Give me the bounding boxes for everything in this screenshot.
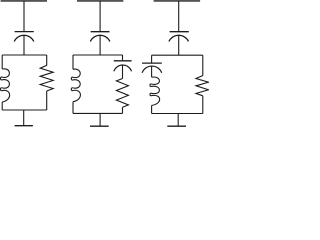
- wire box2 left upper: [72, 55, 74, 69]
- antenna A3 top plate: [154, 0, 201, 2]
- wire box2 left lower: [72, 102, 74, 114]
- wire box1 right lower: [46, 91, 48, 110]
- wire box1 left upper: [1, 55, 3, 69]
- wire box2 top edge: [73, 54, 123, 56]
- wire ground stem 1: [23, 110, 25, 125]
- wire box3 left lower: [151, 105, 153, 113]
- wire box1 right upper: [46, 55, 48, 66]
- capacitor C3 top plate: [114, 60, 132, 62]
- wire C5 to L3: [151, 66, 153, 77]
- wire box1 bottom edge: [2, 109, 47, 111]
- wire box1 left lower: [1, 102, 3, 110]
- resistor R3: [196, 76, 209, 96]
- inductor L2: [71, 69, 80, 102]
- wire feed 2: [99, 1, 101, 31]
- wire box2 bottom edge: [73, 112, 123, 114]
- capacitor C1 top plate: [15, 31, 34, 33]
- ground G2: [90, 125, 109, 127]
- wire C2 to box 2: [99, 35, 101, 55]
- wire box3 right lower: [202, 96, 204, 114]
- wire ground stem 2: [99, 113, 101, 126]
- capacitor C2 curved plate: [90, 35, 110, 41]
- ground G3: [167, 125, 186, 127]
- wire feed 1: [23, 1, 25, 31]
- capacitor C5 top plate: [142, 62, 162, 64]
- antenna A1 top plate: [1, 0, 47, 2]
- wire C4 to box 3: [178, 35, 180, 55]
- wire box3 right upper: [202, 55, 204, 75]
- wire box3 top edge: [152, 54, 203, 56]
- wire box1 top edge: [2, 54, 47, 56]
- capacitor C3 curved plate: [114, 65, 132, 71]
- wire ground stem 3: [177, 114, 179, 126]
- wire C1 to box 1: [23, 35, 25, 55]
- resistor R2: [116, 79, 128, 108]
- ground G1: [15, 125, 33, 127]
- antenna A2 top plate: [77, 0, 123, 2]
- wire C3 to R2: [122, 65, 124, 79]
- inductor L1: [0, 69, 9, 102]
- inductor L3: [150, 77, 160, 105]
- wire feed 3: [178, 1, 180, 31]
- wire box3 left upper: [151, 55, 153, 62]
- capacitor C2 top plate: [91, 31, 110, 33]
- capacitor C1 curved plate: [14, 35, 34, 41]
- capacitor C4 top plate: [170, 31, 189, 33]
- capacitor C4 curved plate: [169, 35, 189, 41]
- wire box2 right lower: [122, 107, 124, 113]
- resistor R1: [40, 65, 53, 91]
- capacitor C5 curved plate: [142, 66, 162, 73]
- wire box3 bottom edge: [152, 113, 203, 115]
- wire box2 right upper: [122, 55, 124, 60]
